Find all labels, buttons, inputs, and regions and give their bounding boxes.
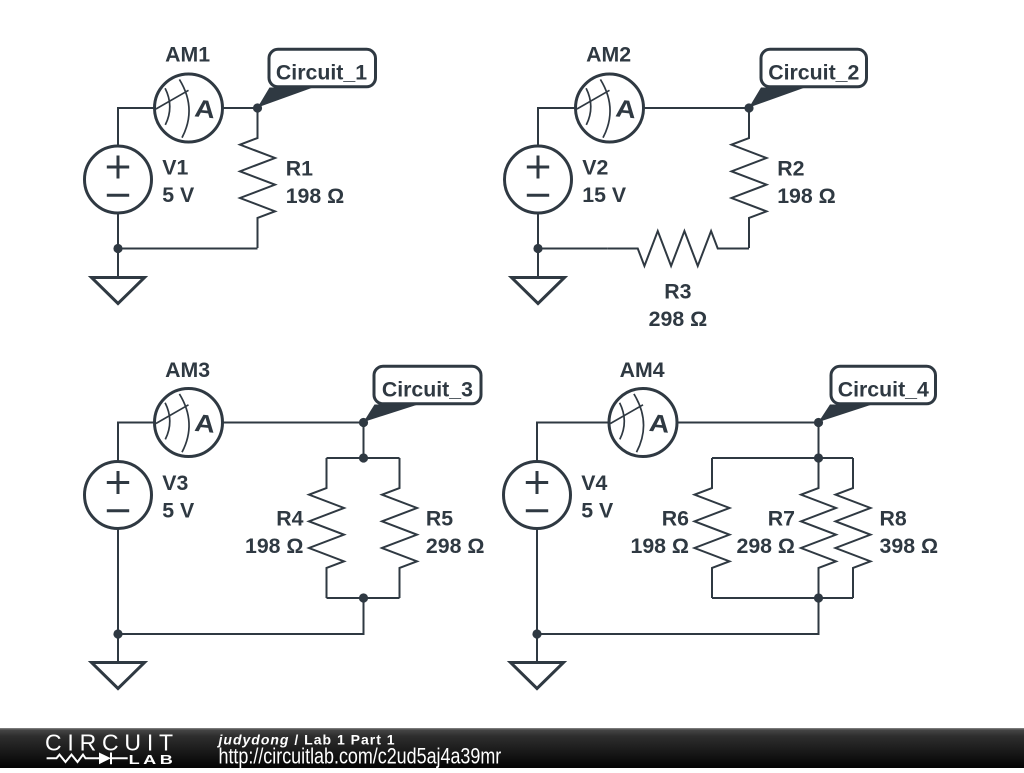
svg-text:R4: R4	[276, 507, 303, 531]
svg-text:R1: R1	[286, 157, 313, 181]
svg-text:Circuit_3: Circuit_3	[382, 377, 473, 401]
svg-text:R7: R7	[768, 507, 795, 531]
svg-text:5 V: 5 V	[581, 498, 614, 522]
svg-text:198 Ω: 198 Ω	[777, 184, 836, 208]
svg-text:V1: V1	[162, 155, 188, 179]
svg-text:5 V: 5 V	[162, 183, 195, 207]
svg-text:398 Ω: 398 Ω	[880, 534, 939, 558]
svg-text:Circuit_4: Circuit_4	[838, 377, 929, 401]
svg-text:AM2: AM2	[586, 43, 631, 67]
svg-text:CIRCUIT: CIRCUIT	[45, 730, 179, 756]
svg-text:LAB: LAB	[129, 754, 177, 768]
svg-text:R3: R3	[664, 280, 691, 304]
svg-text:AM3: AM3	[165, 358, 210, 382]
svg-text:198 Ω: 198 Ω	[286, 184, 345, 208]
svg-text:AM1: AM1	[165, 43, 210, 67]
svg-text:R6: R6	[662, 507, 689, 531]
svg-text:AM4: AM4	[620, 358, 665, 382]
svg-text:V2: V2	[582, 155, 608, 179]
svg-text:15 V: 15 V	[582, 183, 627, 207]
svg-text:V3: V3	[162, 471, 188, 495]
svg-text:R2: R2	[777, 157, 804, 181]
svg-text:V4: V4	[581, 471, 607, 495]
svg-text:R8: R8	[880, 507, 907, 531]
svg-text:5 V: 5 V	[162, 498, 195, 522]
svg-text:Circuit_1: Circuit_1	[276, 61, 367, 85]
svg-text:298 Ω: 298 Ω	[426, 534, 485, 558]
svg-text:198 Ω: 198 Ω	[630, 534, 689, 558]
svg-text:298 Ω: 298 Ω	[649, 307, 708, 331]
svg-text:298 Ω: 298 Ω	[736, 534, 795, 558]
svg-text:http://circuitlab.com/c2ud5aj4: http://circuitlab.com/c2ud5aj4a39mr	[219, 745, 502, 768]
svg-text:R5: R5	[426, 507, 453, 531]
svg-text:Circuit_2: Circuit_2	[768, 61, 859, 85]
svg-text:198 Ω: 198 Ω	[245, 534, 304, 558]
